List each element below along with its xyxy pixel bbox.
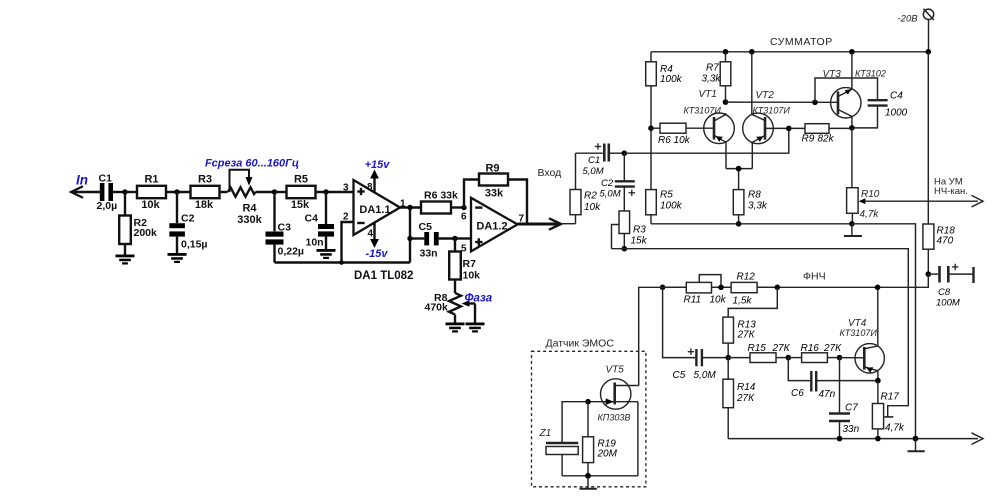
node L VT2 base junction: [786, 126, 792, 132]
svg-text:27К: 27К: [736, 393, 755, 404]
node U C5/R13/R14/R15 junction: [725, 355, 731, 361]
svg-text:C6: C6: [791, 388, 804, 399]
svg-text:C4: C4: [890, 91, 903, 102]
wire DA1.2 feedback loop: [464, 180, 527, 225]
resistor R13 27К: [723, 287, 777, 357]
resistor R15 27К: [728, 343, 790, 363]
svg-text:R14: R14: [737, 382, 756, 393]
svg-text:0,15µ: 0,15µ: [181, 239, 208, 251]
svg-text:8: 8: [367, 182, 373, 193]
svg-text:R11: R11: [684, 295, 702, 306]
resistor R12 1,5k: [731, 271, 777, 306]
resistor R7 3,3k (summator): [702, 52, 731, 102]
trimmer R17 4,7k: [872, 381, 905, 439]
svg-text:33k: 33k: [485, 188, 504, 200]
svg-text:3: 3: [343, 183, 349, 194]
svg-text:C8: C8: [938, 287, 951, 298]
svg-text:10k: 10k: [463, 270, 481, 282]
node W VT4 base / C7 junction: [837, 355, 865, 361]
svg-text:C2: C2: [601, 178, 614, 189]
node N VT3 base junction: [812, 100, 818, 106]
svg-text:47n: 47n: [819, 389, 836, 400]
svg-text:Z1: Z1: [539, 428, 552, 439]
node T R12 right junction: [775, 285, 781, 291]
label +15v: [365, 159, 391, 171]
node Z ground rail junction: [913, 436, 919, 442]
svg-text:18k: 18k: [195, 199, 214, 211]
resistor R18 470: [923, 52, 955, 274]
svg-text:3,3k: 3,3k: [702, 74, 722, 85]
potentiometer R8 470k: [425, 292, 476, 323]
label Fсреза 60...160Гц: [205, 158, 299, 170]
node K VT1 collector / R7 junction: [723, 99, 729, 105]
label VT3: [823, 69, 842, 80]
resistor R6 10k (summator): [651, 123, 714, 146]
junction R8 bottom: [736, 221, 742, 227]
svg-text:4,7k: 4,7k: [885, 423, 905, 434]
wire pin2 feedback stub: [339, 222, 353, 265]
svg-text:0,22µ: 0,22µ: [278, 246, 305, 258]
wire R10 bottom to lower ground rail: [852, 224, 916, 439]
label КТ3102: [855, 69, 886, 79]
wire VT3 to R10: [851, 128, 853, 188]
transistor VT3 КТ3102: [831, 52, 861, 128]
svg-text:C5: C5: [673, 370, 686, 381]
pin 6 label DA1.2: [461, 212, 467, 223]
label VT2: [756, 90, 775, 101]
svg-text:R7: R7: [706, 63, 719, 74]
svg-text:1: 1: [400, 199, 406, 210]
capacitor C2 0,15µ: [169, 192, 207, 253]
resistor R8 3,3k (summator): [733, 190, 768, 224]
svg-text:R12: R12: [737, 271, 756, 282]
resistor R2 200k: [119, 192, 157, 255]
label -15v: [365, 248, 388, 260]
ground at bottom rail: [908, 439, 925, 452]
ground under ЭМОС box: [580, 476, 597, 489]
wire VT1/VT2 emitter join: [726, 169, 752, 190]
ground under C4: [317, 249, 336, 259]
svg-text:R15: R15: [748, 343, 767, 354]
svg-text:15k: 15k: [631, 236, 648, 247]
resistor R16 27К: [788, 343, 842, 363]
svg-text:Датчик ЭМОС: Датчик ЭМОС: [546, 338, 615, 350]
svg-text:82k: 82k: [818, 134, 835, 145]
ground under R8 wiper: [466, 323, 485, 333]
node I R3 bottom junction: [622, 246, 628, 252]
pin 4 power lead -15v: [368, 223, 379, 248]
svg-text:DA1.1: DA1.1: [359, 204, 390, 216]
wire DA1.2 output with arrow: [518, 218, 562, 229]
transistor VT5 КП303В (JFET): [588, 379, 639, 476]
trimmer R11 10k: [663, 275, 732, 306]
node R ФНЧ left junction: [660, 285, 666, 291]
transistor VT4 КТ3107И: [855, 287, 884, 380]
wire R3 bottom feedback line to R17 wiper: [612, 249, 909, 417]
svg-text:R17: R17: [881, 392, 900, 403]
svg-text:Фаза: Фаза: [465, 293, 493, 305]
svg-text:27К: 27К: [823, 343, 842, 354]
piezo sensor Z1: [546, 402, 588, 476]
svg-text:R4: R4: [242, 203, 257, 215]
svg-text:R16: R16: [801, 343, 820, 354]
svg-text:C5: C5: [419, 221, 433, 233]
node V R15/R16/C6 junction: [786, 355, 792, 361]
svg-text:R7: R7: [463, 258, 477, 270]
svg-text:R8: R8: [748, 190, 761, 201]
pin 2 label DA1.1: [343, 212, 349, 223]
ground under C2: [168, 253, 187, 263]
capacitor C5 5,0M (ФНЧ): [663, 287, 729, 381]
svg-text:VT1: VT1: [699, 89, 717, 100]
junction rail VT3: [849, 49, 855, 55]
ground under R8 left: [446, 323, 465, 333]
svg-text:КТ3107И: КТ3107И: [753, 106, 791, 116]
svg-text:R3: R3: [633, 225, 646, 236]
svg-text:C1: C1: [99, 173, 113, 185]
capacitor C1 5,0M: [576, 143, 625, 177]
svg-text:R9: R9: [802, 134, 815, 145]
svg-text:27К: 27К: [772, 343, 791, 354]
wire VT3 base line: [726, 101, 839, 103]
junction C7 bottom: [837, 436, 843, 442]
node P R10 bottom / ground bus: [849, 221, 855, 227]
wire node C (R4/R5/C3 junction): [272, 189, 277, 194]
wire ЭМОС bottom: [562, 475, 638, 477]
node In: input arrow: [71, 186, 100, 197]
svg-text:R5: R5: [660, 190, 673, 201]
svg-text:НЧ-кан.: НЧ-кан.: [934, 186, 968, 197]
node M emitter join: [736, 166, 742, 172]
wire feedback line to VT2 base: [624, 128, 789, 153]
svg-text:470: 470: [937, 236, 954, 247]
dashed box Датчик ЭМОС: [532, 351, 646, 487]
svg-text:10n: 10n: [306, 237, 324, 249]
label На УМ: [934, 177, 963, 188]
ground under R2: [116, 255, 135, 265]
svg-text:5,0M: 5,0M: [694, 370, 717, 381]
pin 8 power lead +15v: [367, 170, 379, 194]
node F pin6 junction: [461, 205, 466, 210]
label VT5: [606, 365, 625, 376]
label СУММАТОР: [770, 36, 833, 48]
svg-text:15k: 15k: [291, 199, 310, 211]
capacitor C7 33n: [829, 358, 860, 439]
node Q R18/C8/ФНЧ junction: [926, 271, 932, 277]
svg-text:R5: R5: [294, 174, 308, 186]
wire output riser to feedback line: [407, 208, 412, 263]
svg-text:C2: C2: [181, 213, 195, 225]
svg-text:10k: 10k: [710, 295, 727, 306]
svg-text:3,3k: 3,3k: [748, 201, 768, 212]
label DA1 TL082: [354, 270, 413, 282]
label ФНЧ: [803, 271, 826, 283]
svg-text:C7: C7: [845, 403, 858, 414]
resistor R2 10k (summator input): [570, 153, 601, 224]
svg-text:Fсреза 60...160Гц: Fсреза 60...160Гц: [205, 158, 299, 170]
variable resistor R4 330k (zigzag with wiper): [228, 170, 275, 226]
terminal -20В: [923, 9, 934, 52]
svg-text:R6 33k: R6 33k: [424, 190, 458, 202]
svg-text:R2: R2: [584, 191, 597, 202]
label In: [76, 173, 88, 188]
capacitor C5 33n: [410, 221, 455, 260]
potentiometer R10 4,7k: [847, 188, 983, 224]
node X VT4 collector junction: [875, 285, 881, 291]
capacitor C3 0,22µ: [266, 192, 305, 263]
svg-text:4,7k: 4,7k: [860, 209, 880, 220]
label КТ3107И (VT1): [684, 106, 722, 116]
svg-text:C3: C3: [278, 222, 292, 234]
pin 3 label DA1.1: [343, 183, 349, 194]
capacitor C1 2,0µ: [97, 173, 126, 213]
label НЧ-кан.: [934, 186, 968, 197]
svg-text:2,0µ: 2,0µ: [97, 200, 118, 212]
node Y VT4 emitter / C6 junction: [875, 378, 881, 384]
node G pin5 junction: [452, 236, 471, 241]
svg-text:R1: R1: [144, 174, 158, 186]
svg-text:СУММАТОР: СУММАТОР: [770, 36, 833, 48]
svg-text:4: 4: [368, 229, 374, 240]
svg-text:1,5k: 1,5k: [733, 296, 753, 307]
junction rail -20В: [926, 49, 932, 55]
node J left rail / R6 junction: [648, 125, 654, 131]
wire node A (C1/R1/R2 junction): [122, 189, 127, 194]
svg-text:200k: 200k: [134, 227, 158, 239]
svg-text:КТ3107И: КТ3107И: [840, 328, 878, 338]
svg-text:27К: 27К: [737, 330, 756, 341]
label Вход: [538, 167, 562, 179]
svg-text:10k: 10k: [141, 199, 160, 211]
label -20В: [898, 14, 919, 25]
op-amp DA1.1: [354, 180, 401, 235]
svg-text:5,0M: 5,0M: [583, 166, 604, 177]
resistor R4 100k (summator): [646, 62, 683, 190]
node AB ЭМОС bottom junction: [585, 473, 591, 479]
capacitor C4 10n: [305, 192, 335, 249]
wire DA1.2 output to R2: [561, 223, 576, 225]
label Z1: [539, 428, 552, 439]
resistor R5 100k (summator): [646, 190, 683, 224]
wire top supply rail: [651, 52, 928, 62]
label КТ3107И (VT4): [840, 328, 878, 338]
svg-text:+15v: +15v: [365, 159, 391, 171]
wire VT5 drain riser: [639, 287, 663, 385]
svg-text:In: In: [76, 173, 88, 188]
svg-text:КП303В: КП303В: [598, 413, 631, 423]
node S R11/R12 junction: [718, 285, 724, 291]
svg-text:-20В: -20В: [898, 14, 919, 25]
label VT4: [848, 318, 867, 329]
svg-text:470k: 470k: [425, 302, 449, 314]
resistor R9 82k: [789, 124, 852, 145]
pin 5 label DA1.2: [461, 244, 467, 255]
resistor R1 10k: [125, 174, 191, 212]
label КП303В: [598, 413, 631, 423]
svg-text:R6 10k: R6 10k: [658, 135, 691, 146]
svg-text:5,0M: 5,0M: [600, 189, 621, 200]
svg-text:100M: 100M: [936, 298, 960, 309]
svg-text:VT5: VT5: [606, 365, 625, 376]
wire summator ground bus: [651, 223, 852, 225]
svg-text:DA1.2: DA1.2: [476, 221, 507, 233]
junction rail VT2: [749, 49, 755, 55]
junction R17 bottom: [875, 436, 881, 442]
svg-text:100k: 100k: [660, 201, 683, 212]
label КТ3107И (VT2): [753, 106, 791, 116]
resistor R14 27К: [723, 358, 756, 439]
capacitor C6 47n: [788, 358, 878, 400]
label Датчик ЭМОС: [546, 338, 615, 350]
resistor R3 18k: [191, 174, 228, 212]
node E output junction: [407, 205, 412, 210]
label VT1: [699, 89, 717, 100]
node O VT3 emitter junction: [849, 125, 855, 131]
junction rail R7: [723, 49, 729, 55]
capacitor C4 1000: [815, 78, 908, 128]
wire bottom ground rail with arrow: [728, 433, 983, 445]
wire node B (R1/R3/C2 junction): [174, 189, 179, 194]
svg-text:20M: 20M: [597, 449, 618, 460]
svg-text:ФНЧ: ФНЧ: [803, 271, 826, 283]
svg-text:1000: 1000: [885, 108, 908, 119]
svg-text:10k: 10k: [584, 202, 601, 213]
ground at R10: [844, 224, 862, 236]
op-amp DA1.2: [471, 198, 518, 252]
label Фаза: [465, 293, 493, 305]
wire ФНЧ top line: [663, 274, 929, 287]
node AA VT5 gate junction: [585, 399, 591, 405]
svg-text:100k: 100k: [660, 74, 683, 85]
resistor R6 33k: [421, 190, 464, 214]
resistor R5 15k: [275, 174, 354, 212]
svg-text:КТ3102: КТ3102: [855, 69, 886, 79]
svg-text:R3: R3: [198, 174, 212, 186]
svg-text:DA1 TL082: DA1 TL082: [354, 270, 413, 282]
svg-text:33n: 33n: [420, 248, 438, 260]
resistor R9 33k: [479, 163, 508, 200]
svg-text:-15v: -15v: [365, 248, 388, 260]
svg-text:Вход: Вход: [538, 167, 562, 179]
transistor VT2 КТ3107И: [743, 52, 789, 169]
svg-text:R10: R10: [861, 189, 880, 200]
capacitor C2 5,0M (vertical): [600, 153, 636, 211]
transistor VT1 КТ3107И: [704, 113, 735, 169]
svg-text:330k: 330k: [237, 214, 262, 226]
capacitor C8 100M: [928, 264, 973, 309]
trimmer R3 15k: [612, 211, 648, 249]
resistor R19 20M: [583, 402, 618, 476]
svg-text:R9: R9: [485, 163, 499, 175]
pin 7 label DA1.2: [519, 214, 525, 225]
wire C3 bottom to DA1.1 feedback line: [275, 261, 411, 263]
wire node D (R5/C4/pin3 junction): [323, 189, 328, 194]
node H C1/C2 junction: [622, 150, 628, 156]
svg-text:VT2: VT2: [756, 90, 775, 101]
resistor R7 10k: [449, 239, 480, 294]
svg-text:C4: C4: [305, 213, 319, 225]
svg-text:5: 5: [461, 244, 467, 255]
svg-text:33n: 33n: [843, 424, 860, 435]
svg-text:КТ3107И: КТ3107И: [684, 106, 722, 116]
pin 1 output DA1.1: [400, 199, 421, 210]
svg-text:6: 6: [461, 212, 467, 223]
svg-text:C1: C1: [588, 155, 600, 166]
